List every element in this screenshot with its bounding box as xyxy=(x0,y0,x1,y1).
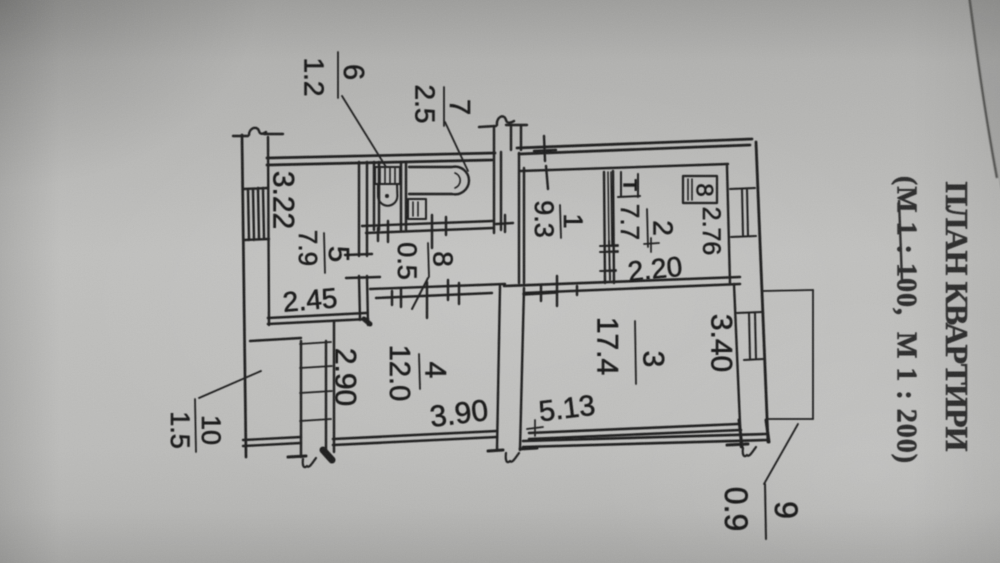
door slash corridor8/room4 xyxy=(412,278,428,309)
wall: room5 right wall inner line (with door gap) xyxy=(367,162,368,325)
tick on wall A xyxy=(496,215,513,232)
squiggle bottom-middle xyxy=(506,453,519,462)
door ticks corridor8 right xyxy=(427,280,459,318)
balcony room3 right xyxy=(812,290,814,419)
wall: room5 right wall outer line (with door gap) xyxy=(359,162,360,320)
leader label 7 xyxy=(445,122,468,171)
door ticks room1 bottom xyxy=(541,276,577,306)
fraction bar 8/0.5 xyxy=(428,243,429,277)
door jamb dashes rooms1/2 divider xyxy=(600,241,618,280)
glazed hatch divider rooms1/2 xyxy=(608,172,612,246)
balcony10 top wall xyxy=(250,338,301,341)
wall: room4 bottom lower line xyxy=(333,437,497,445)
closet rail right xyxy=(325,341,327,455)
wall: left exterior inner line xyxy=(268,137,269,325)
window W2 (room2 right wall) xyxy=(730,188,756,237)
wall: room5 bottom lower line xyxy=(268,319,368,324)
wall: left exterior outer line xyxy=(242,135,246,457)
fraction bar 3/17.4 xyxy=(635,321,636,384)
toilet cistern hatch xyxy=(380,167,395,184)
tick cluster below divider rooms1/2 xyxy=(600,241,618,279)
corner mark top-left xyxy=(233,128,283,136)
wall: top exterior (left block) lower line xyxy=(267,160,492,165)
wall: room5 bottom upper line xyxy=(268,313,366,318)
wall: room3 right inner line xyxy=(734,284,741,447)
fraction bar 2/7.7 xyxy=(647,209,648,247)
wall: divider rooms1/2 right line xyxy=(613,171,614,283)
wall: south exterior lower line xyxy=(523,440,768,447)
wall: WC right wall xyxy=(401,162,406,230)
fraction bar 6/1.2 xyxy=(337,52,339,98)
corner mark bottom-left xyxy=(288,456,306,457)
radiator T box room2 xyxy=(618,172,640,197)
sink box with glyph xyxy=(408,199,426,219)
wall: top exterior (right block) lower line xyxy=(519,145,750,154)
wall: south exterior upper line xyxy=(523,434,766,441)
paper edge crease line top-right xyxy=(969,0,997,178)
leader label 10 xyxy=(199,371,261,398)
balcony10 bottom wall lines xyxy=(243,437,301,446)
tick above 2.20 xyxy=(644,238,659,252)
wall A: bath block right wall (corridor side) xyxy=(494,128,501,233)
fraction bar 9/0.9 xyxy=(765,484,766,539)
wall: room3 bottom inner lower line xyxy=(529,430,741,439)
boxed 8 symbol room2 xyxy=(683,176,717,203)
fraction bar 4/12.0 xyxy=(419,354,420,389)
junction blob room5 bottom right xyxy=(364,319,370,324)
corner mark top-middle xyxy=(479,116,514,127)
balcony room3 (9) top xyxy=(763,290,813,291)
bathtub xyxy=(409,167,469,195)
closet rail left xyxy=(300,341,302,457)
fraction bar 5/7.9 xyxy=(324,233,325,273)
wall: room2 right inner line xyxy=(727,166,730,284)
paper corner fold shadow top-right xyxy=(969,0,1000,190)
wall: top exterior (right block) upper line xyxy=(517,139,752,148)
wall: corridor8 bottom wall lower line (door gap) xyxy=(376,293,492,298)
fraction bar 7/2.5 xyxy=(443,87,445,126)
wall: WC left wall xyxy=(374,162,379,230)
toilet bowl dot xyxy=(385,194,389,198)
door ticks WC door xyxy=(378,221,388,242)
wall: room4 bottom upper line xyxy=(333,431,497,439)
wall: divider rooms1/2 left line xyxy=(604,172,605,283)
window W3 (room3 right wall) xyxy=(737,312,763,360)
wall: top exterior (left block) upper line xyxy=(267,153,495,158)
leader label 6 xyxy=(342,96,386,167)
wall: room4 left wall xyxy=(333,322,335,452)
wall: corridor8 bottom wall upper line (door gap) xyxy=(370,284,505,289)
wall: rooms1-3 long wall (upper line, door gap) xyxy=(504,277,740,286)
wall: top jog stubs xyxy=(506,125,527,150)
entrance door ticks on top wall xyxy=(534,136,556,189)
squiggle bottom-right xyxy=(743,447,756,456)
closet rungs xyxy=(300,342,332,421)
door ticks bath door xyxy=(432,215,446,248)
bathtub inner end curve xyxy=(455,173,460,188)
right wall bottom ends xyxy=(739,420,769,447)
junction blob room4 bottom-left xyxy=(323,450,332,460)
squiggle bottom-left xyxy=(303,458,316,467)
corner mark bottom-right xyxy=(727,444,748,445)
wall: rooms 1-2 top inner line xyxy=(520,164,728,171)
wall: divider room4/room3 left line xyxy=(497,286,500,450)
window W5 (left wall, room 5) xyxy=(243,188,269,240)
wall: right exterior outer line xyxy=(756,142,768,442)
door ticks corridor8 left xyxy=(392,288,401,307)
wall: bath block bottom wall lower line (door gaps) xyxy=(366,228,493,233)
wall: room3 bottom inner upper line xyxy=(529,424,738,433)
toilet bowl xyxy=(378,184,397,206)
toilet cistern xyxy=(375,167,400,184)
balcony room3 bottom xyxy=(769,418,813,420)
junction thick segment left end xyxy=(524,292,557,294)
fraction bar 1/9.3 xyxy=(560,205,561,238)
wall: rooms1-3 long wall (lower line, door gap) xyxy=(524,284,740,293)
wall: bath block bottom wall upper line (door gaps) xyxy=(362,221,493,226)
corner mark bottom-middle xyxy=(488,448,537,451)
wall: room1 left wall xyxy=(519,153,524,283)
leader label 9 xyxy=(764,424,798,484)
wall: divider room4/room3 right line xyxy=(520,288,524,450)
tick room3 bottom-left xyxy=(527,420,543,436)
fraction bar 10/1.5 xyxy=(195,399,196,452)
strikethrough over М 1 : 100 xyxy=(899,200,902,281)
door jamb dashes room 5 xyxy=(345,254,380,278)
